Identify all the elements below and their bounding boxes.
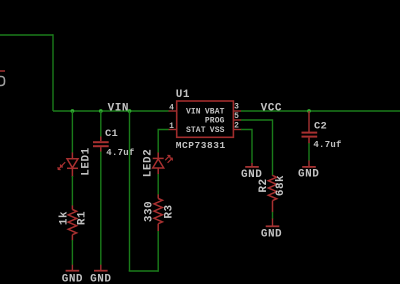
capacitor C2 <box>302 133 318 144</box>
svg-text:R1: R1 <box>77 211 89 225</box>
svg-text:GND: GND <box>261 229 282 241</box>
ground G5 <box>261 219 282 241</box>
svg-text:GND: GND <box>298 169 319 181</box>
resistor R1 <box>68 206 76 241</box>
svg-text:4: 4 <box>169 103 174 112</box>
wire C1 branch <box>100 111 102 137</box>
wire R2 to GND <box>272 212 274 219</box>
svg-text:1k: 1k <box>58 211 70 225</box>
svg-text:3: 3 <box>234 103 239 112</box>
pin 4 stub <box>169 110 177 112</box>
svg-text:330: 330 <box>143 201 155 222</box>
svg-text:VSS: VSS <box>210 126 225 135</box>
wire C2 to GND <box>308 143 310 161</box>
svg-text:4.7uf: 4.7uf <box>313 140 341 150</box>
resistor R3 <box>154 194 162 231</box>
svg-text:5: 5 <box>234 112 239 121</box>
svg-text:VCC: VCC <box>261 103 282 115</box>
svg-text:68k: 68k <box>275 175 287 196</box>
wire loop branch down <box>129 111 131 271</box>
svg-text:PROG: PROG <box>205 117 225 126</box>
junction dot B <box>99 109 103 113</box>
capacitor C1 <box>93 137 109 153</box>
wire C2 branch <box>308 111 310 132</box>
wire LED1 branch <box>71 111 73 153</box>
ground G2 <box>90 265 111 284</box>
wire loop bottom <box>129 270 159 272</box>
wire loop up to R3 <box>157 231 159 272</box>
LED D1 <box>58 153 78 178</box>
svg-text:U1: U1 <box>176 89 190 101</box>
resistor R2 <box>268 175 276 212</box>
svg-text:2: 2 <box>234 122 239 131</box>
wire R1 to GND <box>71 240 73 265</box>
svg-text:C2: C2 <box>314 121 327 133</box>
wire pin2 to GND <box>241 130 252 164</box>
junction dot D <box>307 109 311 113</box>
wire C1 to GND <box>100 152 102 266</box>
wire VCC <box>241 110 400 112</box>
pin 3 stub <box>233 110 241 112</box>
svg-text:GND: GND <box>62 273 83 284</box>
grey fragment left edge <box>0 77 5 86</box>
wire top-left horizontal <box>0 34 53 36</box>
ground G4 <box>298 161 319 181</box>
svg-text:C1: C1 <box>105 128 118 140</box>
svg-text:VIN: VIN <box>186 107 201 116</box>
svg-text:LED1: LED1 <box>81 147 93 175</box>
junction dot A <box>71 109 75 113</box>
svg-text:4.7uf: 4.7uf <box>106 148 134 158</box>
chip U1 box <box>177 101 234 137</box>
wire LED2 to R3 <box>157 174 159 195</box>
wire LED1 to R1 <box>71 176 73 206</box>
svg-text:GND: GND <box>241 169 262 181</box>
red stub left edge <box>0 70 5 72</box>
svg-text:STAT: STAT <box>186 126 206 135</box>
LED D2 <box>153 153 173 175</box>
pin 1 stub <box>169 129 177 131</box>
pin 2 stub <box>233 129 241 131</box>
wire pin1 to LED2 <box>158 130 168 154</box>
svg-text:R3: R3 <box>163 204 175 218</box>
wire top-left vertical <box>52 34 54 111</box>
ground G3 <box>241 163 262 181</box>
svg-text:LED2: LED2 <box>142 149 154 177</box>
svg-text:GND: GND <box>90 273 111 284</box>
svg-text:VBAT: VBAT <box>205 107 225 116</box>
junction dot C <box>128 109 132 113</box>
ground G1 <box>62 265 83 284</box>
svg-text:VIN: VIN <box>108 102 129 114</box>
pin 5 stub <box>233 119 241 121</box>
svg-text:MCP73831: MCP73831 <box>176 140 226 151</box>
wire pin5 to R2 <box>241 120 273 176</box>
svg-text:1: 1 <box>169 122 174 131</box>
wire VIN horizontal <box>53 110 169 112</box>
